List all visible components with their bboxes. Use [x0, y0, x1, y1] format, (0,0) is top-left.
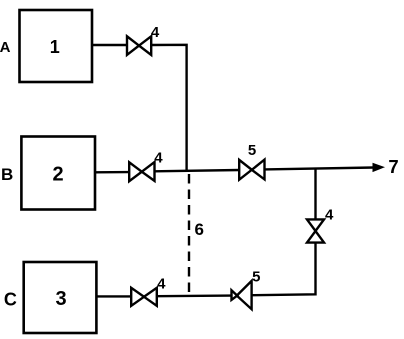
wire box1 to valve 4a [92, 44, 128, 46]
dashed line 6 [188, 174, 190, 296]
wire check valve to valve 4c [156, 294, 232, 297]
wire valve 5 to arrow 7 [264, 168, 374, 170]
svg-text:B: B [1, 165, 13, 184]
svg-text:3: 3 [55, 288, 66, 310]
wire valve 4d to bottom corner [252, 242, 316, 295]
svg-text:4: 4 [151, 24, 160, 41]
wire valve 4a to corner [151, 45, 187, 171]
valve 4d vertical [307, 219, 324, 242]
wire valve 4b to valve 5 [154, 170, 240, 171]
wire box2 to valve 4b [95, 171, 130, 174]
valve 4a [127, 36, 151, 55]
box 1 [20, 10, 93, 82]
svg-text:4: 4 [157, 276, 166, 293]
svg-text:5: 5 [248, 142, 256, 159]
svg-text:A: A [0, 39, 11, 56]
check valve 5b [232, 281, 252, 309]
svg-text:5: 5 [252, 269, 260, 286]
svg-text:C: C [4, 290, 17, 310]
svg-text:4: 4 [325, 206, 334, 223]
svg-text:1: 1 [50, 37, 60, 57]
valve 4b [129, 162, 154, 181]
box 2 [21, 137, 95, 210]
valve 4c [131, 288, 157, 306]
svg-text:6: 6 [194, 220, 203, 239]
svg-text:4: 4 [154, 150, 163, 167]
wire junction down to valve 4d [314, 168, 316, 220]
box 3 [24, 262, 97, 333]
svg-text:7: 7 [388, 156, 398, 177]
wire valve 4c to box 3 [96, 295, 132, 297]
arrowhead 7 [373, 163, 384, 171]
svg-text:2: 2 [52, 163, 63, 185]
valve 5 middle [239, 160, 264, 180]
